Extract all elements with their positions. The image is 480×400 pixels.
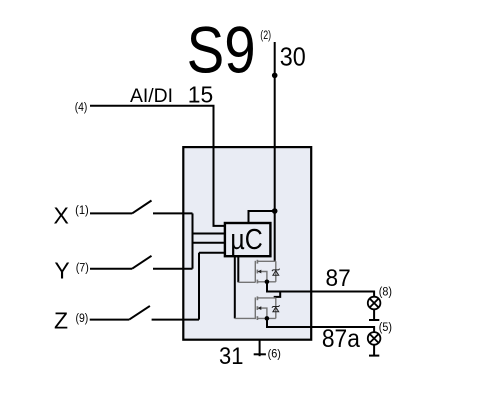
svg-text:(7): (7): [76, 262, 89, 274]
svg-text:(1): (1): [75, 205, 89, 217]
svg-text:Y: Y: [54, 257, 69, 283]
svg-text:(6): (6): [268, 346, 281, 360]
svg-text:87: 87: [326, 265, 351, 292]
svg-text:(5): (5): [379, 320, 392, 334]
svg-text:Z: Z: [54, 308, 68, 334]
svg-text:AI/DI: AI/DI: [130, 85, 173, 107]
svg-text:30: 30: [280, 44, 306, 72]
svg-text:X: X: [54, 202, 69, 228]
svg-text:15: 15: [188, 81, 213, 107]
svg-text:S9: S9: [187, 13, 256, 86]
svg-text:31: 31: [219, 343, 243, 370]
svg-text:µC: µC: [230, 224, 262, 256]
svg-text:(9): (9): [76, 313, 89, 325]
svg-text:(4): (4): [75, 100, 88, 114]
svg-text:(8): (8): [379, 285, 392, 299]
svg-text:(2): (2): [260, 30, 271, 42]
svg-text:87a: 87a: [322, 326, 360, 353]
